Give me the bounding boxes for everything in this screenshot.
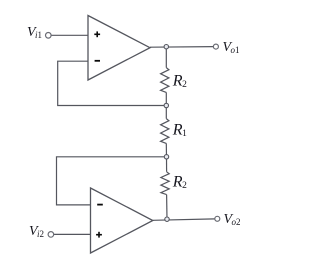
wire node C to R2 bottom resistor [166, 157, 168, 172]
node B (R2/R1 junction) [164, 103, 168, 107]
U2 minus input symbol [97, 204, 103, 206]
wire node A to R2 top [165, 47, 167, 68]
wire Vi2 to U2 + input [53, 233, 90, 235]
terminal Vi1 [46, 33, 52, 39]
node C (R1/R2 junction) [164, 155, 168, 159]
resistor R2 (top) [161, 68, 169, 93]
wire R2 bottom to node B [165, 92, 167, 105]
resistor R1 [161, 119, 169, 144]
terminal Vo2 [215, 216, 220, 221]
U1 plus input symbol [94, 31, 100, 37]
resistor R2 (bottom) [161, 172, 169, 195]
op-amp U1 [88, 16, 150, 81]
U1 minus input symbol [95, 60, 100, 62]
op-amp U2 [91, 188, 153, 253]
wire U1 feedback loop (minus input to node B) [58, 61, 167, 105]
wire U1 output to Vo1 [150, 46, 213, 49]
node D (U2 output junction) [165, 217, 169, 221]
U2 plus input symbol [96, 232, 102, 238]
node A (U1 output junction) [164, 45, 168, 49]
wire R1 to node C [165, 143, 167, 156]
wire Vi1 to U1 + input [51, 34, 88, 36]
wire U2 feedback loop (node C to minus input) [57, 157, 167, 205]
terminal Vo1 [213, 44, 218, 49]
wire node B to R1 [165, 106, 167, 119]
wire U2 output to Vo2 [153, 219, 215, 220]
wire R2 to node D [166, 195, 168, 220]
terminal Vi2 [48, 232, 54, 238]
